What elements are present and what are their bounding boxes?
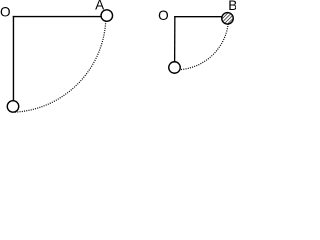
dotted arc (rotation path, right figure) (179, 24, 228, 70)
node B circle (hatched) (222, 13, 234, 25)
svg-text:B: B (228, 0, 236, 13)
node A circle (101, 10, 113, 22)
wire vertical arm O down (174, 16, 176, 68)
wire horizontal arm O to B (174, 16, 224, 18)
svg-text:O: O (0, 4, 11, 19)
wire vertical arm O down (12, 16, 14, 106)
wire horizontal arm O to A (13, 16, 107, 18)
node bottom circle (left figure) (7, 101, 19, 113)
dotted arc (rotation path, left figure) (14, 21, 105, 112)
svg-text:O: O (158, 8, 169, 23)
node bottom circle (right figure) (169, 62, 181, 74)
svg-text:A: A (95, 0, 105, 12)
